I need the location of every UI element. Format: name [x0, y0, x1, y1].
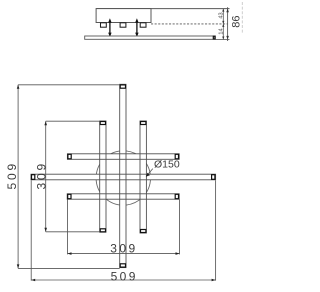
light bar right end cap: [213, 36, 215, 39]
fill of horizontal bar H3: [67, 194, 179, 199]
H3 left end cap: [68, 194, 71, 198]
spring mounting arrow 2: [135, 18, 138, 37]
fill of vertical bar V1: [120, 84, 126, 267]
arrowhead left-509 top: [17, 85, 20, 89]
left 309 dimension line: [45, 121, 47, 232]
left 509 top extension line: [18, 84, 120, 86]
svg-text:509: 509: [5, 161, 19, 189]
arrowhead bottom-309 left: [68, 252, 72, 255]
mounting tab 1: [101, 23, 107, 27]
faint sheet edge remnant: [241, 2, 243, 33]
H2 left end cap: [32, 175, 35, 180]
bottom extension line to 86-dim: [215, 39, 229, 41]
central round plate, diameter 150: [96, 151, 150, 205]
left 309 top extension line: [46, 120, 100, 122]
svg-text:43: 43: [219, 12, 225, 18]
fill of vertical bar V3: [140, 121, 146, 233]
left 509 dimension line: [17, 85, 19, 269]
main light bar (side view): [85, 36, 216, 39]
H1 right end cap: [175, 154, 178, 159]
arrowhead left-309 top: [44, 121, 47, 125]
diameter leader and label O150: [146, 158, 180, 176]
bottom 509 right extension line: [215, 180, 217, 280]
canopy body: [96, 9, 151, 23]
bottom 509 left extension line: [30, 180, 32, 280]
bottom 309 dimension line: [68, 253, 180, 255]
fill of horizontal bar H2: [31, 174, 216, 180]
vertical bar V1 (length 509): [120, 84, 126, 267]
ceiling line / canopy top edge with extension to 86-dim: [96, 8, 229, 10]
svg-text:509: 509: [111, 269, 138, 283]
vertical bar V2 (length 309): [100, 121, 106, 232]
left 509 bottom extension line: [18, 267, 120, 269]
inner dimension line 43/14: [222, 9, 224, 40]
dimension line 86: [226, 7, 229, 41]
H2 right end cap: [212, 175, 215, 180]
hidden dashed bottom edge of driver box: [151, 23, 228, 25]
fill of vertical bar V2: [100, 121, 106, 232]
spring mounting arrow 1: [108, 18, 111, 37]
arrowhead bottom-509 right: [212, 279, 216, 282]
arrowhead left-309 bottom: [44, 228, 47, 232]
V1 top end cap: [120, 85, 125, 88]
svg-text:Ø150: Ø150: [154, 158, 180, 170]
svg-text:309: 309: [110, 241, 137, 255]
horizontal bar H2 (length 509): [31, 174, 216, 180]
bottom 309 left extension line: [67, 200, 69, 255]
arrowhead bottom-509 left: [31, 279, 35, 282]
V2 bottom end cap: [100, 229, 105, 232]
svg-text:14: 14: [219, 28, 225, 34]
horizontal bar H3 (length 309): [67, 194, 179, 199]
mounting tab 3: [140, 23, 146, 27]
H3 right end cap: [175, 194, 178, 198]
vertical bar V3 (length 309): [140, 121, 146, 233]
V2 top end cap: [100, 122, 105, 125]
mounting tab 2: [120, 23, 126, 27]
V3 top end cap: [141, 122, 146, 125]
V3 bottom end cap: [141, 230, 146, 233]
fill of horizontal bar H1: [67, 154, 179, 160]
horizontal bar H1 (length 309): [67, 154, 179, 160]
svg-text:309: 309: [35, 161, 49, 189]
arrowhead left-509 bottom: [17, 264, 20, 268]
arrowhead bottom-309 right: [176, 252, 180, 255]
bottom 309 right extension line: [179, 200, 181, 255]
svg-text:86: 86: [231, 15, 243, 27]
V1 bottom end cap: [120, 264, 125, 267]
left 309 bottom extension line: [46, 231, 100, 233]
H1 left end cap: [68, 154, 71, 159]
bottom 509 dimension line: [31, 279, 215, 281]
